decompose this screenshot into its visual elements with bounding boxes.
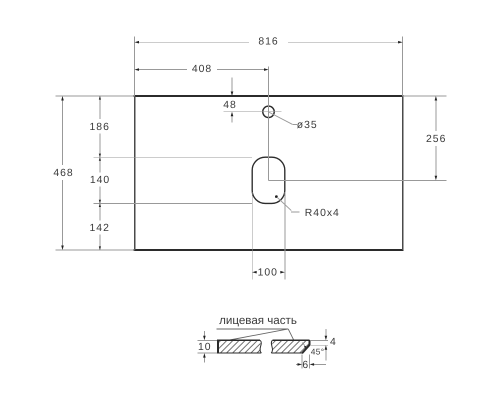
right slab right edge (thick)	[308, 340, 310, 346]
right slab hatch	[272, 341, 309, 353]
svg-text:45°: 45°	[311, 346, 325, 356]
countertop outline left edge	[134, 96, 136, 250]
svg-text:468: 468	[53, 168, 73, 179]
svg-text:ø35: ø35	[297, 120, 318, 131]
extension line above left corner	[134, 37, 136, 97]
svg-text:256: 256	[426, 134, 446, 145]
svg-text:100: 100	[258, 268, 278, 279]
left slab top edge	[217, 339, 260, 341]
inner left dimension line 186/140/142	[99, 96, 101, 119]
svg-text:4: 4	[330, 337, 337, 348]
extension line left of bottom edge	[56, 249, 135, 251]
svg-text:48: 48	[223, 100, 237, 111]
dimension 100 arrows	[252, 271, 257, 274]
dimension 6 arrows	[296, 363, 298, 365]
extension line below cutout right tangent	[284, 192, 286, 279]
left slab break edge	[260, 340, 261, 353]
right slab break edge	[271, 340, 272, 353]
dimension 10 extension lines	[198, 339, 217, 341]
dimension 10 arrows	[203, 331, 205, 337]
tick arrows on inner dimension line	[99, 96, 101, 100]
svg-text:6: 6	[302, 360, 309, 371]
right slab chamfer 45 (thick)	[302, 345, 310, 353]
svg-text:10: 10	[198, 342, 212, 353]
svg-text:186: 186	[90, 122, 110, 133]
leader dot and line for R40x4	[275, 195, 278, 198]
svg-text:лицевая часть: лицевая часть	[219, 314, 297, 327]
left slab left edge (thick)	[217, 340, 219, 353]
svg-text:R40x4: R40x4	[305, 208, 340, 219]
right slab top edge	[272, 339, 309, 341]
countertop outline top edge	[134, 95, 404, 97]
leader to left slab	[230, 329, 288, 340]
extension line at cutout bottom (140 boundary)	[94, 202, 253, 204]
vertical centerline through hole and cutout	[268, 67, 270, 181]
svg-text:816: 816	[258, 37, 278, 48]
svg-text:140: 140	[90, 175, 110, 186]
right slab bottom edge	[272, 352, 303, 354]
horizontal centerline through cutout center to right	[269, 179, 447, 181]
drain cutout rounded rect R40x4	[252, 157, 285, 203]
leader to right slab	[288, 329, 293, 340]
faucet hole circle ø35	[263, 106, 275, 118]
extension line at cutout top (186 boundary)	[94, 156, 253, 158]
dimension 816 line	[139, 41, 249, 43]
extension line below cutout left tangent	[251, 192, 253, 279]
dimension 468 line	[62, 100, 64, 165]
extension line right of top edge	[403, 95, 447, 97]
leader for ø35	[269, 112, 293, 124]
dimension 408 line	[139, 69, 187, 71]
label underline	[217, 328, 289, 330]
horizontal centerline through circle	[224, 111, 282, 113]
left slab bottom edge	[217, 352, 261, 354]
dimension 6 extension lines	[301, 355, 303, 369]
extension line left of top edge	[56, 95, 135, 97]
45 degree leader arc	[302, 343, 305, 348]
dimension 256 line	[435, 100, 437, 131]
dimension 4 extension lines	[311, 339, 328, 341]
svg-text:408: 408	[192, 64, 212, 75]
dimension 4 arrows	[325, 329, 327, 337]
left slab hatch	[219, 341, 261, 353]
countertop outline bottom edge	[134, 249, 404, 251]
countertop outline right edge	[402, 96, 404, 250]
svg-text:142: 142	[90, 223, 110, 234]
extension line above right corner	[402, 37, 404, 97]
dimension 48 arrows	[231, 78, 233, 93]
